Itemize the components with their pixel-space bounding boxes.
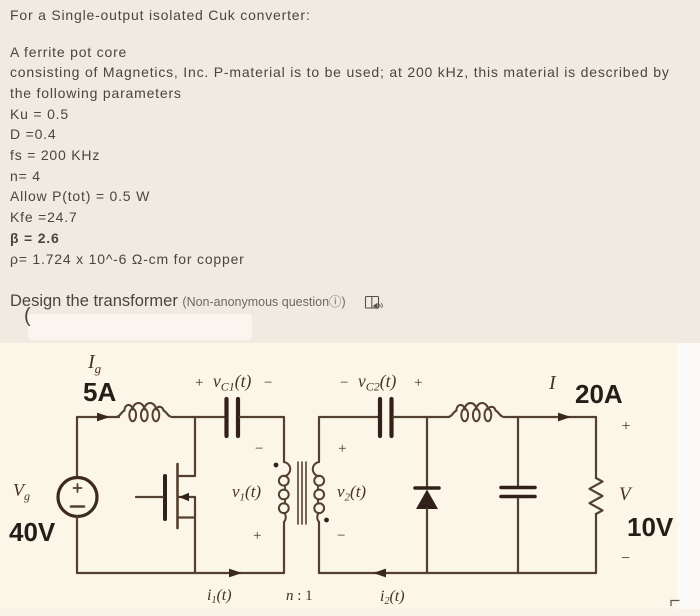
wire: C1 to transformer primary top bbox=[240, 417, 284, 462]
wire: L2 to right corner bbox=[504, 416, 596, 418]
wire: source bottom to bottom rail bbox=[76, 517, 78, 574]
transformer polarity dot primary bbox=[274, 463, 279, 468]
svg-text:5A: 5A bbox=[83, 377, 116, 407]
wire: inductor to C1 (through MOSFET drain node) bbox=[172, 416, 225, 418]
circuit image background bbox=[0, 343, 677, 609]
svg-text:I: I bbox=[548, 372, 557, 394]
current arrow i2 bbox=[373, 569, 386, 578]
transformer T1 secondary winding bbox=[313, 462, 324, 522]
svg-text:20A: 20A bbox=[575, 379, 623, 409]
wire: right rail bottom bbox=[595, 514, 597, 573]
wire: right rail top bbox=[595, 417, 597, 478]
svg-text:−: − bbox=[621, 550, 630, 567]
svg-text:−vC2(t)+: −vC2(t)+ bbox=[340, 371, 422, 394]
open parenthesis bbox=[24, 305, 31, 328]
svg-text:+: + bbox=[622, 418, 631, 435]
svg-text:40V: 40V bbox=[9, 517, 56, 547]
svg-text:v2(t): v2(t) bbox=[337, 482, 366, 504]
current arrow Ig bbox=[97, 413, 110, 422]
wire: secondary bottom lead bbox=[318, 522, 320, 573]
prompt line: Design the transformer bbox=[10, 291, 346, 311]
svg-text:i1(t): i1(t) bbox=[207, 587, 232, 606]
capacitor C2 bbox=[380, 399, 392, 436]
svg-text:−: − bbox=[337, 528, 345, 544]
svg-text:Vg: Vg bbox=[13, 480, 30, 503]
inductor L2 (output filter inductor) bbox=[448, 403, 504, 421]
transistor Q1 (MOSFET) bbox=[136, 417, 195, 573]
wire: secondary top lead to top rail bbox=[319, 417, 378, 462]
white answer box bbox=[28, 314, 252, 340]
wire: bottom rail secondary side bbox=[319, 572, 596, 574]
current arrow i1 bbox=[229, 569, 242, 578]
svg-text:+vC1(t)−: +vC1(t)− bbox=[195, 371, 272, 394]
diode D1 bbox=[415, 417, 439, 573]
svg-text:v1(t): v1(t) bbox=[232, 482, 261, 504]
question text paragraph 2 bbox=[10, 42, 670, 270]
svg-text:i2(t): i2(t) bbox=[380, 588, 405, 607]
current arrow I (output) bbox=[558, 413, 571, 422]
wire: bottom rail primary side bbox=[77, 572, 284, 574]
svg-text:Ig: Ig bbox=[87, 351, 102, 376]
svg-text:10V: 10V bbox=[627, 512, 674, 542]
transformer core bbox=[298, 462, 306, 524]
transformer polarity dot secondary bbox=[324, 518, 329, 523]
filter capacitor C bbox=[501, 417, 535, 573]
resistor R (load) bbox=[590, 478, 603, 514]
svg-text:n : 1: n : 1 bbox=[286, 588, 313, 604]
transformer T1 primary winding bbox=[279, 462, 290, 522]
svg-text:V: V bbox=[619, 484, 633, 505]
voltage source Vg bbox=[58, 478, 97, 517]
wire: C2 to diode node to inductor L2 bbox=[394, 416, 450, 418]
inductor L1 (input filter inductor) bbox=[116, 403, 172, 421]
svg-text:+: + bbox=[338, 441, 346, 457]
wire: primary bottom lead bbox=[283, 522, 285, 573]
capacitor C1 bbox=[227, 399, 239, 436]
question text paragraph 1 bbox=[10, 5, 311, 26]
wire: left rail top (source to top rail, to inductor) bbox=[77, 417, 119, 478]
svg-text:−: − bbox=[255, 441, 263, 457]
svg-text:+: + bbox=[253, 528, 261, 544]
